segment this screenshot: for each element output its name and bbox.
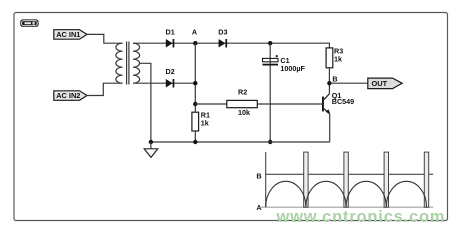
logo badge bbox=[20, 19, 38, 27]
waveform plot axis line / first pulse bbox=[265, 152, 267, 207]
wire AC IN1 to transformer primary top bbox=[87, 34, 123, 43]
wire R2 row left bbox=[195, 103, 227, 105]
port AC IN1 bbox=[54, 30, 87, 40]
junction dot D2 row bbox=[193, 81, 197, 85]
node B junction dot bbox=[327, 81, 331, 85]
wire Q1 emitter down to rail bbox=[329, 114, 331, 142]
waveform rectified sine humps bbox=[266, 181, 427, 207]
port OUT bbox=[368, 78, 402, 89]
svg-text:A: A bbox=[256, 203, 261, 212]
waveform pulse bar 3 bbox=[384, 152, 388, 207]
ground symbol bbox=[144, 142, 158, 157]
capacitor C1 bbox=[263, 43, 306, 73]
wire AC IN2 to transformer primary bottom bbox=[87, 83, 123, 95]
wire R3 bottom to node B to Q1 collector bbox=[328, 68, 330, 94]
svg-text:OUT: OUT bbox=[372, 79, 388, 88]
junction dot C1 bottom on rail bbox=[268, 140, 272, 144]
svg-text:www.cntronics.com: www.cntronics.com bbox=[276, 208, 446, 226]
wire secondary center tap to ground rail bbox=[139, 63, 151, 142]
svg-text:AC IN1: AC IN1 bbox=[56, 30, 80, 39]
transformer T1 primary winding bbox=[116, 43, 123, 83]
wire top rail secondary to R3 bbox=[133, 43, 329, 48]
svg-text:10k: 10k bbox=[238, 108, 250, 117]
junction dot R1 bottom on rail bbox=[193, 140, 197, 144]
wire R2 row right to Q1 base bbox=[257, 103, 322, 105]
transformer T1 core bbox=[127, 42, 129, 85]
junction dot center tap on rail bbox=[149, 140, 153, 144]
wire R1 bottom to rail bbox=[194, 131, 196, 142]
svg-text:B: B bbox=[332, 74, 337, 83]
diode D2 bbox=[166, 67, 175, 87]
port AC IN2 bbox=[54, 91, 87, 101]
svg-text:B: B bbox=[256, 171, 261, 180]
waveform pulse bar 1 bbox=[304, 152, 308, 207]
svg-text:D2: D2 bbox=[166, 67, 175, 76]
svg-text:D1: D1 bbox=[166, 28, 175, 37]
waveform baseline (A level) bbox=[261, 206, 433, 208]
wire C1 bottom to rail bbox=[269, 66, 271, 143]
svg-text:1000µF: 1000µF bbox=[280, 64, 305, 73]
node A junction dot bbox=[193, 41, 197, 45]
waveform pulse bar 4 bbox=[424, 152, 428, 207]
svg-text:AC IN2: AC IN2 bbox=[56, 91, 80, 100]
resistor R1 bbox=[192, 110, 210, 131]
svg-text:R2: R2 bbox=[238, 87, 247, 96]
svg-text:1k: 1k bbox=[201, 118, 209, 127]
ground rail wire bbox=[151, 141, 330, 143]
svg-text:1k: 1k bbox=[334, 55, 342, 64]
diode D3 bbox=[218, 28, 227, 48]
junction dot R2 row bbox=[193, 102, 197, 106]
resistor R3 bbox=[326, 47, 343, 68]
wire node A vertical down bbox=[194, 43, 196, 112]
svg-text:BC549: BC549 bbox=[332, 97, 354, 106]
svg-text:A: A bbox=[192, 28, 197, 37]
waveform B level line bbox=[266, 173, 434, 175]
transistor Q1 bbox=[322, 91, 354, 114]
junction dot C1 top bbox=[268, 41, 272, 45]
transformer T1 secondary winding bbox=[133, 43, 140, 83]
svg-text:D3: D3 bbox=[218, 28, 227, 37]
wire node B to OUT port bbox=[329, 82, 367, 84]
waveform pulse bar 2 bbox=[344, 152, 348, 207]
wire secondary bottom to D2 to node junction bbox=[133, 82, 195, 84]
diode D1 bbox=[166, 28, 175, 48]
resistor R2 bbox=[227, 87, 257, 117]
